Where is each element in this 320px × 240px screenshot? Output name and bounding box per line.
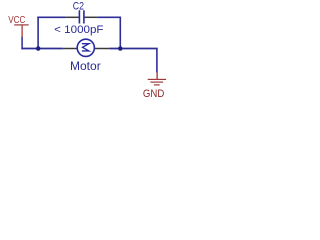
svg-text:Motor: Motor (70, 61, 101, 73)
power symbol VCC (14, 24, 29, 37)
node junction dot right (118, 46, 123, 51)
svg-text:GND: GND (143, 88, 164, 100)
ground symbol (148, 72, 166, 85)
motor M1 (77, 39, 94, 56)
wire left branch vertical (37, 17, 39, 49)
svg-text:< 1000pF: < 1000pF (54, 24, 104, 36)
wire top rail left (37, 16, 66, 18)
wire VCC vertical stub (net part) (21, 37, 23, 50)
wire right branch vertical to junction (119, 17, 121, 48)
wire capacitor right pin (85, 16, 98, 18)
wire top rail right (97, 16, 121, 18)
wire capacitor left pin (66, 16, 79, 18)
capacitor C2 (79, 10, 85, 23)
svg-text:VCC: VCC (8, 15, 25, 26)
svg-text:C2: C2 (73, 1, 84, 13)
wire vertical down to ground (156, 49, 158, 73)
node junction dot left (36, 46, 41, 51)
wire motor right pin (95, 48, 110, 50)
wire net VCC middle rail left (21, 48, 62, 50)
wire middle rail right (109, 48, 157, 50)
wire motor left pin (63, 48, 77, 50)
